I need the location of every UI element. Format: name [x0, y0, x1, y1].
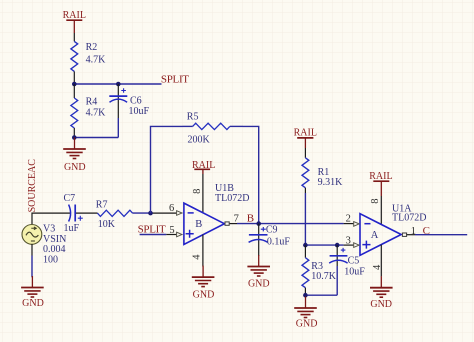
power port RAIL (above R1)	[294, 128, 317, 149]
capacitor C5	[329, 245, 365, 295]
op-amp U1A pin 8	[380, 196, 382, 224]
junction (R1/R3/pin3)	[303, 243, 308, 248]
pin 2	[354, 222, 359, 227]
svg-text:9.31K: 9.31K	[318, 177, 344, 188]
svg-text:R4: R4	[86, 97, 98, 108]
svg-text:100: 100	[43, 255, 58, 266]
svg-text:SPLIT: SPLIT	[138, 223, 166, 235]
svg-text:C7: C7	[64, 193, 76, 204]
junction (C5 tap)	[335, 243, 340, 248]
ground GND (under R3)	[294, 297, 317, 330]
svg-text:4.7K: 4.7K	[86, 54, 107, 65]
junction (C9 tap)	[256, 221, 261, 226]
power port RAIL (above U1B)	[192, 160, 215, 174]
pin 6	[177, 211, 182, 216]
svg-text:GND: GND	[370, 299, 392, 310]
svg-text:5: 5	[169, 225, 174, 236]
svg-text:0.1uF: 0.1uF	[267, 236, 291, 247]
resistor R5 (feedback)	[151, 112, 259, 224]
pin 7 output	[225, 222, 229, 225]
wire (C7 to R7)	[76, 212, 98, 214]
svg-text:GND: GND	[193, 290, 215, 301]
svg-text:GND: GND	[22, 298, 44, 309]
resistor R4	[71, 84, 106, 138]
svg-text:TL072D: TL072D	[215, 193, 249, 204]
svg-text:0.004: 0.004	[43, 244, 66, 255]
svg-text:10uF: 10uF	[129, 106, 150, 117]
wire (R4 bottom to C6 bottom)	[74, 137, 118, 139]
resistor R3	[302, 245, 337, 295]
svg-text:R2: R2	[86, 42, 98, 53]
wire (R7 to pin6)	[133, 212, 151, 214]
ground GND (U1A pin 4)	[370, 276, 393, 310]
ground GND (under V3)	[21, 276, 44, 309]
wire (V3 top to C7)	[32, 213, 70, 224]
svg-text:A: A	[371, 230, 379, 241]
svg-text:RAIL: RAIL	[369, 171, 392, 182]
svg-text:C6: C6	[130, 95, 142, 106]
power port RAIL (above U1A)	[369, 171, 392, 196]
op-amp U1B pin 4	[202, 235, 204, 267]
op-amp U1A pin 4	[380, 245, 382, 277]
wire (pin 3 net)	[305, 244, 343, 246]
svg-text:SPLIT: SPLIT	[161, 73, 189, 85]
svg-text:10K: 10K	[98, 219, 116, 230]
source V3 VSIN	[22, 223, 66, 265]
svg-text:GND: GND	[64, 162, 86, 173]
svg-text:1uF: 1uF	[64, 223, 80, 234]
svg-text:TL072D: TL072D	[392, 213, 426, 224]
svg-text:8: 8	[370, 198, 381, 203]
junction (R3/C5/GND)	[303, 293, 308, 298]
ground GND (under R4)	[63, 138, 86, 174]
svg-text:C9: C9	[266, 225, 278, 236]
svg-text:RAIL: RAIL	[294, 128, 317, 139]
capacitor C7	[64, 193, 83, 234]
svg-text:VSIN: VSIN	[43, 234, 66, 245]
svg-text:R7: R7	[96, 200, 108, 211]
svg-text:4: 4	[191, 254, 202, 260]
wire (R3 bottom to C5 bottom)	[305, 294, 337, 296]
svg-text:R5: R5	[187, 112, 199, 123]
svg-text:6: 6	[169, 203, 174, 214]
capacitor C6	[109, 84, 149, 138]
resistor R1	[302, 148, 343, 193]
node junction (R2/R4/SPLIT)	[72, 82, 77, 87]
pin 1 output	[402, 233, 406, 236]
svg-text:200K: 200K	[188, 135, 211, 146]
svg-text:8: 8	[192, 189, 203, 194]
ground GND (U1B pin 4)	[192, 266, 215, 301]
wire B (U1B out to U1A pin2)	[237, 223, 344, 225]
junction (feedback/pin6)	[148, 211, 153, 216]
power port RAIL (top left)	[63, 10, 86, 33]
svg-text:10.7K: 10.7K	[311, 271, 337, 282]
svg-text:4.7K: 4.7K	[86, 108, 107, 119]
wire (V3 bottom to GND)	[31, 244, 33, 256]
op-amp U1B pin 8	[202, 174, 204, 213]
pin 3	[354, 243, 359, 248]
svg-text:GND: GND	[248, 279, 270, 290]
svg-text:10uF: 10uF	[344, 267, 365, 278]
svg-text:SOURCEAC: SOURCEAC	[27, 159, 38, 213]
svg-text:C5: C5	[348, 256, 360, 267]
wire SPLIT (top)	[74, 83, 161, 85]
svg-text:4: 4	[372, 264, 383, 270]
wire C (output to edge)	[415, 234, 467, 236]
svg-text:V3: V3	[43, 223, 55, 234]
svg-text:2: 2	[346, 213, 351, 224]
svg-text:B: B	[195, 219, 202, 230]
op-amp U1B	[184, 183, 250, 244]
svg-text:3: 3	[346, 235, 351, 246]
resistor R7	[96, 200, 133, 230]
node junction (C6 tap)	[116, 82, 121, 87]
resistor R2	[71, 33, 106, 84]
wire (R1 down to pin3 net, crosses B wire)	[304, 193, 306, 245]
ground GND (under C9)	[247, 255, 270, 290]
svg-text:GND: GND	[296, 319, 318, 330]
capacitor C9	[249, 224, 291, 256]
op-amp U1A	[360, 204, 426, 256]
svg-text:B: B	[247, 212, 254, 224]
pin 5 wire + net label SPLIT	[140, 234, 167, 236]
junction (R4/C6/GND)	[72, 135, 77, 140]
